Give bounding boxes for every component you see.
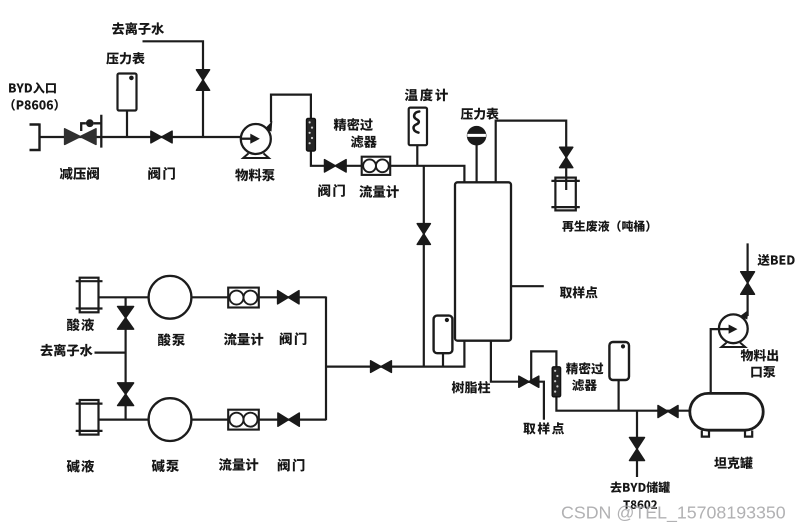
valve V5: on down line [417, 224, 430, 245]
filter F1: 精密过滤器 cartridge [307, 118, 316, 151]
instrument: thermometer TI body [409, 108, 427, 146]
label 取样点 (upper) [560, 286, 598, 298]
wire: pump-1 discharge loop [271, 95, 311, 123]
wire: acid/alkali cross connector [124, 297, 126, 419]
wire: outlet pump discharge to BED [746, 243, 748, 316]
valve V9: DI cross upper [118, 307, 134, 330]
valve V3: DI-water top valve [196, 70, 209, 91]
wire: riser loop into filter-2 [531, 351, 556, 380]
wire: column outlet to sample valve [491, 341, 519, 382]
label 滤器 (F1) [351, 135, 377, 148]
label (P8606) [11, 99, 57, 111]
valve V12: column outlet sample valve [519, 376, 539, 387]
pump P3: 碱泵 body [149, 398, 192, 441]
wire: valve-2 to flowmeter-1 [346, 165, 363, 167]
tank: 再生废液 waste drum [551, 178, 579, 211]
wire: left branch vertical header [325, 297, 327, 421]
label 酸泵 [158, 333, 185, 346]
valve V2: 阀门 on inlet line [151, 131, 172, 143]
label 减压阀 [60, 167, 99, 180]
wire: column to waste tank [496, 121, 567, 183]
valve V15: 送BED valve [741, 272, 755, 295]
instrument: sensor pot before tank [609, 342, 629, 380]
wire: filter-1 to valve segment [311, 151, 325, 166]
label 去离子水 (left) [41, 344, 93, 357]
valve V13: to BYD storage [630, 438, 645, 461]
valve V14: 阀门 before tank [658, 406, 678, 418]
label 碱泵 [152, 459, 179, 472]
wire: deionized-water top branch [143, 41, 204, 137]
label BYD入口 [9, 82, 56, 93]
valve V7: 阀门 on mixing line [371, 361, 392, 373]
label 滤器 (F2) [572, 379, 597, 391]
valve V6: waste line valve [560, 147, 573, 167]
svg-text:CSDN @TEL_15708193350: CSDN @TEL_15708193350 [561, 503, 786, 524]
label 物料出 [741, 349, 778, 361]
wire: acid pump to header [191, 296, 326, 298]
valve V1: 减压阀 actuator [81, 115, 101, 148]
label 精密过 (F1) [334, 118, 373, 131]
label 碱液 [67, 460, 94, 473]
label 送BED [757, 254, 794, 266]
label 压力表 (PG2) [461, 108, 499, 120]
label 流量计 (FM2) [224, 333, 263, 346]
label 取样点 (lower) [523, 422, 564, 434]
label T8602 [623, 500, 657, 509]
label 物料泵 [235, 169, 275, 182]
label 阀门 (V8) [280, 332, 307, 345]
instrument: sensor pot at column bottom [434, 316, 453, 354]
valve V4: 阀门 after filter-1 [325, 160, 347, 172]
valve V10: DI cross lower [118, 383, 134, 406]
wire: instrument-2 drop [617, 380, 619, 411]
wire: small instrument drop [442, 353, 444, 367]
wire: upper sampling stub [511, 285, 544, 287]
wire: flowmeter-1 to column top [390, 166, 464, 183]
tank: 碱液 alkali drum [76, 400, 103, 435]
wire: alkali tank to pump [98, 419, 150, 421]
valve V11: 阀门 alkali line [278, 413, 299, 426]
tank: 酸液 acid drum [76, 278, 103, 313]
wire: thermometer tap [416, 145, 418, 166]
flange: BYD inlet cap [30, 123, 40, 151]
label 阀门 (V4) [318, 184, 345, 197]
label 口泵 [751, 366, 775, 378]
instrument: PG1 index dot [129, 76, 134, 81]
pump P1: 物料泵 body [241, 121, 273, 158]
wire: mixing line into column bottom [326, 341, 464, 367]
label 阀门 (V2) [148, 167, 175, 180]
label 酸液 [67, 318, 94, 331]
label 流量计 (FM3) [219, 458, 258, 471]
wire: acid tank to pump [98, 296, 150, 298]
instrument: pressure gauge PG1 body [118, 74, 137, 111]
wire: tank to outlet pump suction [711, 329, 720, 394]
wire: DI-water left stub [95, 352, 126, 354]
filter F2: 精密过滤器 cartridge 2 [552, 367, 560, 397]
label 阀门 (V11) [278, 459, 305, 472]
label 精密过 (F2) [566, 362, 603, 374]
instrument: pressure gauge PG2 (dial) [467, 126, 487, 146]
instrument: flowmeter FM2 [228, 288, 259, 308]
vessel: 树脂柱 resin column [455, 182, 511, 340]
wire: branch down to BYD storage [636, 411, 638, 477]
valve V1: 减压阀 body [65, 129, 96, 145]
label 树脂柱 [452, 381, 491, 393]
instrument: flowmeter FM1 [362, 157, 391, 175]
wire: sample drop after valve [539, 382, 544, 420]
wire: waste drum dip pipe [565, 178, 567, 190]
label 去离子水 (top) [112, 22, 164, 35]
label 再生废液（吨桶） [562, 220, 649, 232]
wire: BYD inlet main line [40, 136, 243, 138]
label 去BYD储罐 [610, 481, 669, 492]
wire: gauge-1 tap [126, 110, 128, 137]
wire: down line to mixing junction [423, 166, 425, 367]
tank: 坦克罐 horizontal vessel [690, 393, 763, 436]
valve V8: 阀门 acid line [278, 291, 299, 304]
label 温度计 [405, 88, 448, 101]
wire: filter-2 to tank line [556, 397, 690, 411]
wire: gauge-2 tap [476, 145, 478, 184]
pump P2: 酸泵 body [149, 276, 192, 319]
pump P4: 物料出口泵 body [719, 310, 749, 347]
label 压力表 (PG1) [106, 52, 145, 64]
instrument: flowmeter FM3 [228, 410, 259, 430]
wire: alkali pump to header [191, 419, 326, 421]
label 坦克罐 [714, 457, 752, 469]
label 流量计 (FM1) [359, 185, 398, 198]
